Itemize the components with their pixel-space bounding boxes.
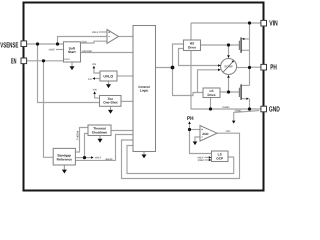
svg-text:VIN: VIN (93, 89, 97, 92)
svg-text:VREF: VREF (49, 48, 56, 51)
svg-text:PH: PH (270, 63, 277, 72)
svg-text:EN: EN (88, 78, 92, 81)
svg-text:Logic: Logic (140, 89, 149, 93)
svg-text:Shutdown: Shutdown (92, 130, 107, 134)
svg-text:BGOK: BGOK (106, 158, 113, 161)
svg-text:START: START (64, 58, 71, 61)
svg-text:AGND: AGND (235, 110, 242, 113)
svg-text:PH: PH (187, 116, 194, 122)
svg-text:VIN: VIN (269, 19, 278, 28)
svg-text:One-Shot: One-Shot (103, 101, 118, 105)
svg-text:VSENSE: VSENSE (0, 41, 18, 50)
svg-text:GND: GND (269, 104, 280, 113)
svg-text:THERM: THERM (77, 131, 80, 140)
svg-text:Drive: Drive (188, 46, 196, 50)
svg-text:VIN: VIN (92, 63, 96, 66)
svg-text:Drive: Drive (208, 93, 216, 97)
svg-text:Reference: Reference (57, 158, 73, 162)
svg-text:EN: EN (11, 57, 16, 66)
svg-text:PGND: PGND (223, 106, 230, 109)
svg-text:ZCD: ZCD (202, 132, 209, 136)
svg-text:SSDONE: SSDONE (82, 50, 93, 53)
svg-text:VDD: VDD (82, 40, 87, 43)
svg-text:OCP: OCP (216, 157, 224, 161)
svg-text:PWM: PWM (198, 159, 204, 162)
svg-text:VREF: VREF (92, 31, 99, 34)
svg-text:VREF: VREF (95, 157, 102, 160)
svg-text:ZCD: ZCD (226, 130, 231, 133)
svg-text:UVLO: UVLO (103, 74, 113, 78)
svg-text:Start: Start (68, 50, 76, 54)
